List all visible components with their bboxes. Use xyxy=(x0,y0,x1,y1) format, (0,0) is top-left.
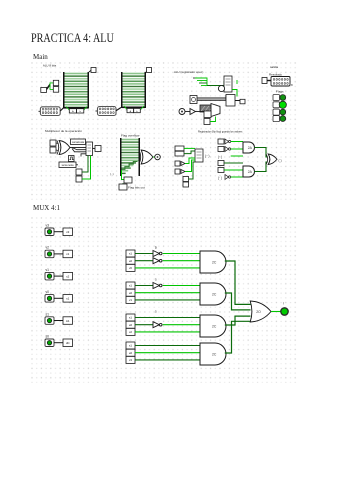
svg-text:s1: s1 xyxy=(129,316,132,320)
svg-text:v3: v3 xyxy=(46,224,50,228)
svg-text:s1: s1 xyxy=(46,312,50,316)
svg-text:s0: s0 xyxy=(46,335,50,339)
svg-text:s1: s1 xyxy=(129,284,132,288)
svg-text:Flag overflow: Flag overflow xyxy=(121,133,140,137)
svg-text:e0: e0 xyxy=(129,351,133,355)
svg-text:2A: 2A xyxy=(248,146,253,150)
svg-text:Flag bits out: Flag bits out xyxy=(128,186,145,190)
svg-text:(··): (··) xyxy=(205,154,210,158)
svg-text:x3: x3 xyxy=(66,230,70,234)
svg-text:A1: A1 xyxy=(66,319,70,323)
svg-text:ALU (registrador oper.): ALU (registrador oper.) xyxy=(174,70,203,74)
svg-text:v1: v1 xyxy=(129,298,132,302)
svg-text:ALU 8 bits: ALU 8 bits xyxy=(43,63,57,67)
svg-text:(..): (..) xyxy=(110,172,114,176)
svg-text:s1: s1 xyxy=(129,344,132,348)
svg-text:Flags: Flags xyxy=(276,89,284,93)
svg-text:Multiplexor de la operación: Multiplexor de la operación xyxy=(45,129,82,133)
svg-text:Resultado: Resultado xyxy=(269,72,282,76)
svg-text:(· ): (· ) xyxy=(218,155,222,159)
svg-text:v1: v1 xyxy=(46,268,50,272)
svg-text:e0: e0 xyxy=(129,323,133,327)
svg-text:v0: v0 xyxy=(46,290,50,294)
svg-text:( ): ( ) xyxy=(279,159,282,163)
svg-text:e0: e0 xyxy=(129,259,133,263)
svg-text:2C: 2C xyxy=(212,292,217,296)
svg-text:v2: v2 xyxy=(46,246,50,250)
svg-text:x2: x2 xyxy=(129,330,132,334)
svg-text:2C: 2C xyxy=(212,324,217,328)
svg-text:2C: 2C xyxy=(212,352,217,356)
svg-text:salida: salida xyxy=(270,65,278,69)
svg-text:(· ): (· ) xyxy=(218,176,222,180)
svg-text:suma/resta: suma/resta xyxy=(72,141,84,144)
svg-text:s1: s1 xyxy=(129,252,132,256)
svg-text:v0: v0 xyxy=(129,266,132,270)
svg-text:2O: 2O xyxy=(256,310,261,314)
svg-text:x3: x3 xyxy=(129,358,132,362)
svg-text:v1: v1 xyxy=(66,252,70,256)
svg-text:suma resta: suma resta xyxy=(62,164,74,167)
svg-text:Registrador (flip flop) guarda: Registrador (flip flop) guarda los valor… xyxy=(198,130,243,133)
svg-text:2A: 2A xyxy=(248,170,253,174)
svg-text:x1: x1 xyxy=(66,297,70,301)
svg-text:e0: e0 xyxy=(129,291,133,295)
svg-text:2C: 2C xyxy=(212,260,217,264)
svg-text:x2: x2 xyxy=(66,274,70,278)
